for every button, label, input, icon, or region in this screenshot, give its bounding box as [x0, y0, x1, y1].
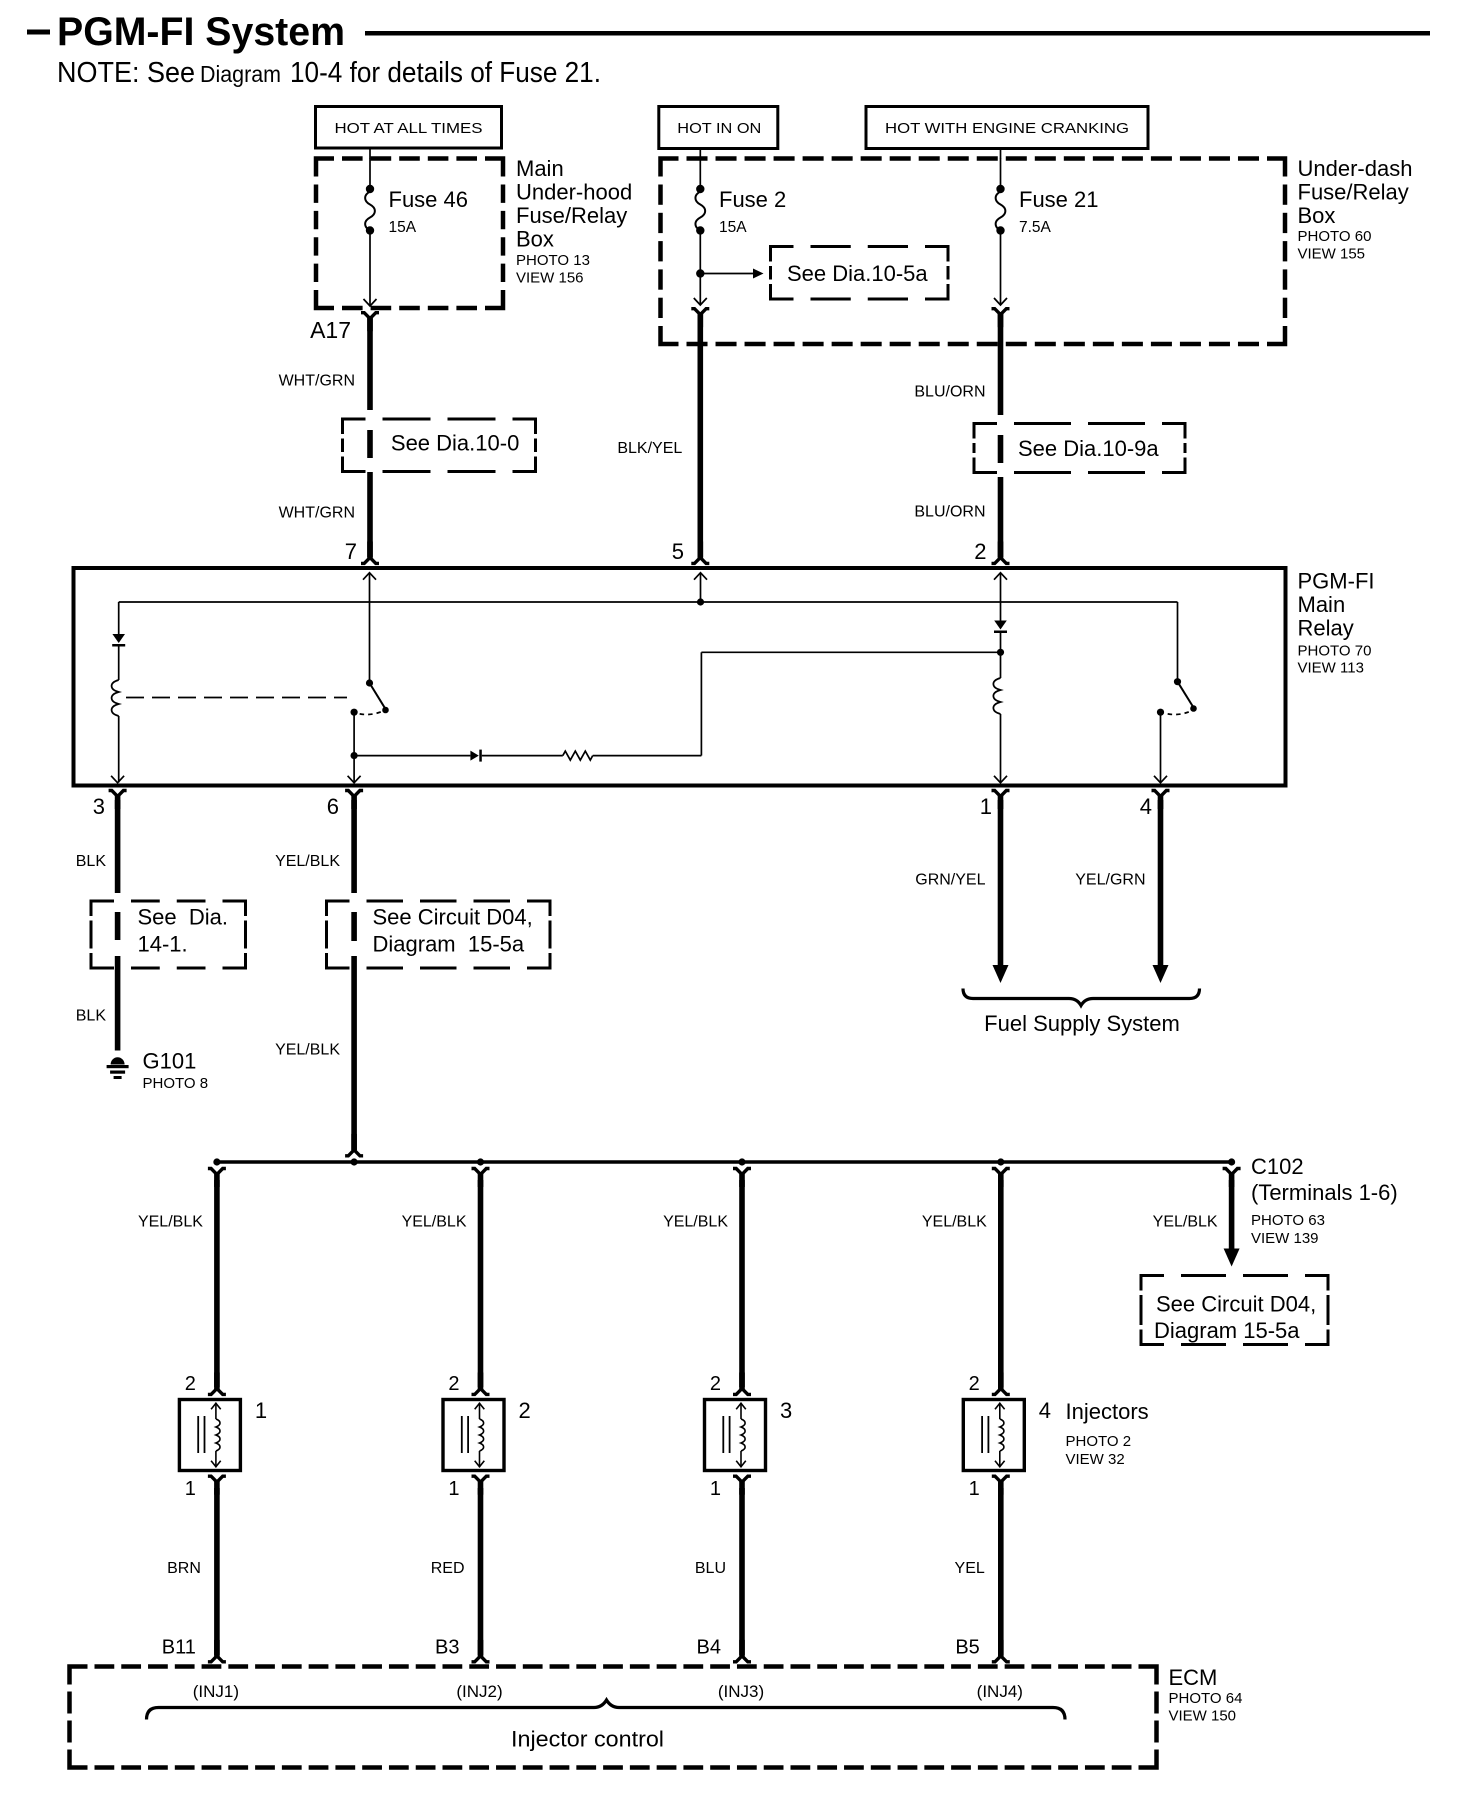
svg-text:VIEW 155: VIEW 155: [1298, 246, 1366, 263]
svg-text:15A: 15A: [719, 219, 747, 236]
svg-text:YEL/BLK: YEL/BLK: [275, 853, 340, 870]
svg-text:A17: A17: [310, 317, 351, 343]
svg-text:G101: G101: [143, 1049, 197, 1074]
svg-text:3: 3: [93, 794, 105, 819]
svg-text:Under-hood: Under-hood: [516, 180, 632, 205]
svg-text:5: 5: [672, 539, 684, 564]
svg-text:YEL/BLK: YEL/BLK: [1153, 1214, 1218, 1231]
svg-text:BLK: BLK: [76, 853, 107, 870]
svg-text:4: 4: [1039, 1398, 1051, 1423]
svg-text:Under-dash: Under-dash: [1298, 156, 1413, 181]
svg-text:ECM: ECM: [1169, 1665, 1218, 1690]
svg-text:4: 4: [1140, 794, 1152, 819]
svg-text:Fuse 46: Fuse 46: [389, 187, 469, 212]
svg-text:7.5A: 7.5A: [1019, 219, 1052, 236]
svg-text:Fuse/Relay: Fuse/Relay: [1298, 180, 1409, 205]
svg-text:See Circuit D04,: See Circuit D04,: [1156, 1292, 1316, 1317]
svg-text:VIEW 139: VIEW 139: [1251, 1230, 1319, 1247]
svg-text:B4: B4: [697, 1637, 721, 1659]
svg-text:B11: B11: [162, 1637, 196, 1659]
svg-text:VIEW 113: VIEW 113: [1298, 660, 1364, 677]
svg-text:BRN: BRN: [167, 1560, 201, 1577]
svg-text:PHOTO 8: PHOTO 8: [143, 1075, 209, 1092]
svg-text:BLK/YEL: BLK/YEL: [617, 440, 682, 457]
svg-text:2: 2: [969, 1373, 980, 1395]
svg-text:6: 6: [327, 794, 339, 819]
svg-text:Injector control: Injector control: [511, 1727, 664, 1752]
svg-text:(INJ1): (INJ1): [193, 1682, 239, 1701]
svg-text:Main: Main: [1298, 592, 1346, 617]
svg-text:3: 3: [780, 1398, 792, 1423]
svg-text:WHT/GRN: WHT/GRN: [279, 373, 355, 390]
svg-text:1: 1: [710, 1478, 721, 1500]
svg-text:GRN/YEL: GRN/YEL: [915, 872, 985, 889]
svg-text:(INJ2): (INJ2): [456, 1682, 502, 1701]
svg-text:Fuse 21: Fuse 21: [1019, 187, 1099, 212]
svg-text:NOTE: SeeDiagram10-4 for detai: NOTE: SeeDiagram10-4 for details of Fuse…: [57, 57, 601, 89]
svg-text:VIEW 32: VIEW 32: [1066, 1451, 1125, 1468]
svg-text:PHOTO 64: PHOTO 64: [1169, 1690, 1243, 1707]
svg-text:YEL/BLK: YEL/BLK: [922, 1214, 987, 1231]
svg-text:HOT IN ON: HOT IN ON: [677, 120, 761, 137]
svg-text:2: 2: [519, 1398, 531, 1423]
svg-text:Fuse 2: Fuse 2: [719, 187, 786, 212]
svg-text:PHOTO 63: PHOTO 63: [1251, 1212, 1325, 1229]
svg-text:PGM-FI System: PGM-FI System: [57, 10, 345, 54]
svg-text:1: 1: [448, 1478, 459, 1500]
svg-text:Box: Box: [1298, 203, 1336, 228]
svg-text:VIEW 156: VIEW 156: [516, 270, 584, 287]
svg-text:PGM-FI: PGM-FI: [1298, 569, 1375, 594]
svg-text:PHOTO 70: PHOTO 70: [1298, 643, 1372, 660]
svg-text:WHT/GRN: WHT/GRN: [279, 505, 355, 522]
svg-text:See Dia.10-0: See Dia.10-0: [391, 431, 519, 456]
svg-text:Fuel Supply System: Fuel Supply System: [984, 1011, 1180, 1036]
svg-text:BLU: BLU: [695, 1560, 726, 1577]
svg-text:BLU/ORN: BLU/ORN: [914, 504, 985, 521]
svg-text:Relay: Relay: [1298, 616, 1354, 641]
svg-text:Diagram 15-5a: Diagram 15-5a: [373, 932, 525, 957]
svg-text:PHOTO 60: PHOTO 60: [1298, 228, 1372, 245]
svg-text:1: 1: [969, 1478, 980, 1500]
svg-text:See Dia.10-5a: See Dia.10-5a: [787, 261, 928, 286]
svg-text:1: 1: [255, 1398, 267, 1423]
svg-text:Fuse/Relay: Fuse/Relay: [516, 203, 627, 228]
svg-text:Injectors: Injectors: [1066, 1399, 1149, 1424]
svg-text:(INJ3): (INJ3): [718, 1682, 764, 1701]
svg-text:Diagram 15-5a: Diagram 15-5a: [1154, 1318, 1300, 1343]
svg-text:See Dia.: See Dia.: [138, 905, 229, 930]
svg-text:HOT AT ALL TIMES: HOT AT ALL TIMES: [335, 120, 483, 137]
svg-text:1: 1: [980, 794, 992, 819]
svg-text:2: 2: [185, 1373, 196, 1395]
svg-text:YEL/BLK: YEL/BLK: [275, 1042, 340, 1059]
svg-text:BLK: BLK: [76, 1008, 107, 1025]
svg-text:B5: B5: [955, 1637, 979, 1659]
svg-text:PHOTO 13: PHOTO 13: [516, 252, 590, 269]
svg-text:7: 7: [345, 539, 357, 564]
svg-text:C102: C102: [1251, 1154, 1304, 1179]
svg-text:BLU/ORN: BLU/ORN: [914, 384, 985, 401]
svg-text:See Circuit D04,: See Circuit D04,: [373, 905, 533, 930]
svg-text:Main: Main: [516, 156, 564, 181]
svg-text:(Terminals 1-6): (Terminals 1-6): [1251, 1180, 1398, 1205]
svg-text:YEL/BLK: YEL/BLK: [663, 1214, 728, 1231]
svg-text:RED: RED: [431, 1560, 465, 1577]
svg-text:2: 2: [710, 1373, 721, 1395]
svg-text:YEL/GRN: YEL/GRN: [1075, 872, 1145, 889]
svg-text:B3: B3: [435, 1637, 459, 1659]
svg-text:VIEW 150: VIEW 150: [1169, 1708, 1237, 1725]
svg-text:(INJ4): (INJ4): [977, 1682, 1023, 1701]
svg-text:YEL/BLK: YEL/BLK: [402, 1214, 467, 1231]
svg-text:YEL: YEL: [955, 1560, 985, 1577]
svg-text:2: 2: [448, 1373, 459, 1395]
svg-text:14-1.: 14-1.: [138, 932, 188, 957]
svg-text:See Dia.10-9a: See Dia.10-9a: [1018, 436, 1159, 461]
svg-text:15A: 15A: [389, 219, 417, 236]
svg-text:YEL/BLK: YEL/BLK: [138, 1214, 203, 1231]
svg-text:2: 2: [974, 539, 986, 564]
svg-text:HOT WITH ENGINE CRANKING: HOT WITH ENGINE CRANKING: [885, 120, 1129, 137]
svg-text:PHOTO 2: PHOTO 2: [1066, 1433, 1132, 1450]
svg-text:1: 1: [185, 1478, 196, 1500]
svg-text:Box: Box: [516, 227, 554, 252]
